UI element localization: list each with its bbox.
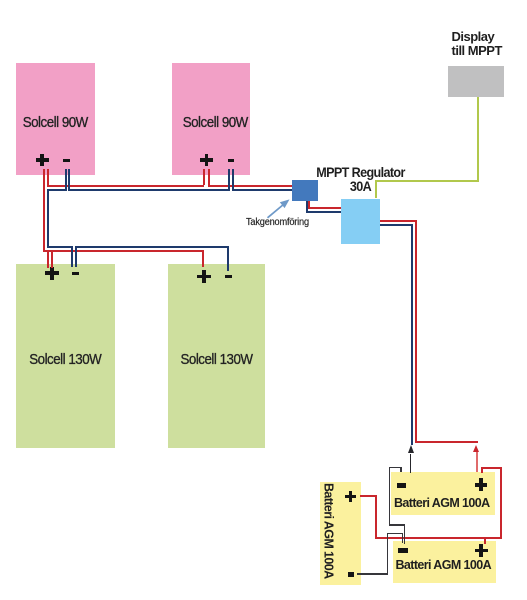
wire red P2+ right riser xyxy=(208,169,210,187)
terminal P2 minus xyxy=(228,159,235,162)
terminal B3 plus xyxy=(475,549,488,553)
wire green regulator drop xyxy=(375,182,377,199)
solar panel P1 Solcell 90W xyxy=(16,63,95,176)
wire navy P1- jog horizontal xyxy=(47,189,66,191)
wire navy P3- drop a xyxy=(71,248,73,267)
wire black B1- to B3- drop xyxy=(402,533,404,544)
wire red B2+ loop top xyxy=(481,467,502,469)
battery B3 bottom xyxy=(393,541,497,584)
solar panel P2 Solcell 90W xyxy=(172,63,250,175)
terminal P3 plus xyxy=(45,271,59,275)
battery B2 top xyxy=(391,472,495,515)
terminal P4 plus xyxy=(197,275,211,279)
wire red feedthrough to regulator xyxy=(308,207,341,209)
wire navy upper negative bus right xyxy=(232,189,292,191)
terminal P4 minus xyxy=(225,275,232,279)
wire navy P1- right riser xyxy=(68,169,70,191)
terminal P1 minus xyxy=(63,159,70,162)
solar panel P4 Solcell 130W xyxy=(168,264,265,449)
wire red to battery arrow horizontal xyxy=(415,441,478,443)
wire navy regulator out horizontal xyxy=(380,224,412,226)
terminal P2 plus xyxy=(200,158,213,161)
wire black B2- jog horizontal xyxy=(389,524,406,526)
wire black arrow tail xyxy=(410,454,412,473)
terminal B1 plus xyxy=(345,495,356,498)
wire black B1- bridge horizontal xyxy=(387,533,403,535)
wire red B1+ horizontal xyxy=(360,495,376,497)
label P2 xyxy=(180,115,250,130)
terminal B1 minus xyxy=(348,572,355,577)
wire red P3+ drop a xyxy=(47,252,49,268)
wire black B2- top horizontal xyxy=(389,467,402,469)
wire red lower positive bus xyxy=(43,250,204,252)
wire navy P1- left drop xyxy=(65,169,67,191)
wire red B3+ drop xyxy=(484,537,486,544)
label P1 xyxy=(20,115,90,130)
wire navy regulator out vertical xyxy=(411,224,413,445)
wire red arrow tail xyxy=(476,452,477,472)
solar panel P3 Solcell 130W xyxy=(16,264,115,449)
wire navy lower negative bus right xyxy=(75,246,228,248)
label battery B1 vertical xyxy=(322,483,336,579)
label battery B3 xyxy=(392,559,496,572)
label Takgenomforing xyxy=(246,218,309,228)
terminal P1 plus xyxy=(36,158,49,161)
wire navy feedthrough out drop xyxy=(306,201,308,213)
wire navy P2- left riser xyxy=(228,169,230,189)
wire navy P2- right riser xyxy=(232,169,234,191)
wire black B2- to B3- drop xyxy=(404,524,406,544)
wire red upper positive bus right xyxy=(208,185,292,187)
wire navy feedthrough to regulator xyxy=(306,211,341,213)
wire black B2- left vertical xyxy=(389,467,391,526)
arrowhead black xyxy=(408,445,414,453)
wire red P3+ drop b xyxy=(51,252,53,268)
wire red P1+ right riser xyxy=(47,169,49,187)
roof feedthrough box Takgenomforing xyxy=(292,180,318,201)
wire red regulator out vertical xyxy=(415,220,417,443)
terminal P3 minus xyxy=(72,272,79,276)
battery B1 vertical xyxy=(320,482,362,585)
MPPT regulator box xyxy=(341,199,380,244)
wire red bottom positive bus xyxy=(375,537,502,539)
label MPPT Regulator 30A xyxy=(310,166,412,192)
wire red P4+ drop xyxy=(202,252,204,267)
wire red regulator out horizontal xyxy=(380,220,417,222)
wire navy P4- drop xyxy=(227,248,229,271)
wire red P2+ left riser xyxy=(203,169,205,185)
wire red P1+ left drop xyxy=(43,169,45,252)
wire black B2- short riser xyxy=(400,467,402,472)
display box xyxy=(448,66,504,97)
wire red loop right vertical xyxy=(500,467,502,540)
wire red B1+ vertical xyxy=(375,495,377,540)
label P3 xyxy=(21,352,109,367)
annotation arrow to feedthrough xyxy=(258,193,298,225)
terminal B2 plus xyxy=(475,483,488,487)
wire red feedthrough out drop xyxy=(308,201,310,209)
wire green display vertical xyxy=(477,97,479,182)
arrowhead red xyxy=(473,445,479,452)
label Display till MPPT xyxy=(452,30,502,58)
wire navy left long drop xyxy=(47,191,49,247)
label P4 xyxy=(173,352,259,367)
wire green horizontal xyxy=(375,180,479,182)
terminal B2 minus xyxy=(397,483,407,488)
terminal B3 minus xyxy=(398,548,408,553)
wire red B2+ riser xyxy=(481,467,483,473)
wire red upper positive bus left xyxy=(47,185,204,187)
wire black B1- horizontal xyxy=(357,573,389,575)
label battery B2 xyxy=(390,497,494,510)
wire navy lower negative bus left xyxy=(47,246,73,248)
wire navy upper negative bus left xyxy=(68,189,230,191)
wire black B1- riser xyxy=(387,533,389,575)
wire navy P3- drop b xyxy=(75,248,77,267)
